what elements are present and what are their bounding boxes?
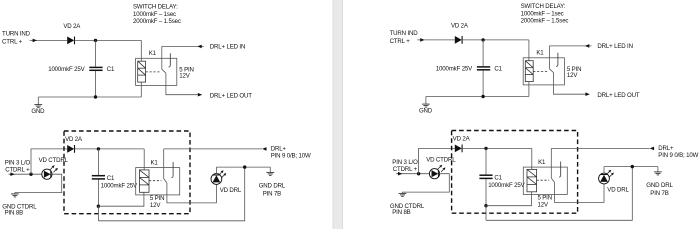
svg-text:K1: K1	[151, 160, 159, 167]
junction node D	[484, 204, 487, 207]
wire LED VD CTDRL to ground	[15, 174, 62, 194]
svg-text:12V: 12V	[179, 73, 190, 80]
ground GND (top)	[422, 103, 430, 105]
wire node A to capacitor C1	[95, 40, 97, 66]
svg-text:2000mkF – 1.5sec: 2000mkF – 1.5sec	[521, 17, 569, 24]
wire to GND DRL symbol	[269, 167, 271, 172]
LED VD CTDRL	[429, 169, 439, 179]
capacitor C1 (top)	[89, 66, 102, 68]
relay NO contact stub (bottom)	[559, 162, 561, 178]
wire node D to return rail	[97, 206, 99, 221]
svg-text:C1: C1	[107, 66, 115, 73]
page 2 schematic	[390, 3, 699, 220]
svg-text:CTDRL +: CTDRL +	[5, 167, 30, 174]
page 1 schematic	[2, 4, 311, 221]
svg-text:12V: 12V	[538, 201, 549, 208]
relay NO contact stub (top)	[556, 53, 558, 67]
relay lever (bottom)	[551, 178, 554, 182]
wire input to diode VD 2A	[417, 39, 454, 41]
wire capacitor to ground rail	[482, 71, 484, 97]
svg-text:PIN 9 0/B; 10W: PIN 9 0/B; 10W	[658, 152, 698, 159]
diode VD 2A (bottom)	[67, 145, 74, 153]
wire DRL+ LED IN	[162, 45, 204, 47]
relay NC contact (top)	[161, 46, 163, 69]
junction node E	[631, 165, 634, 168]
capacitor C1 (bottom)	[479, 174, 492, 176]
svg-text:DRL+ LED IN: DRL+ LED IN	[210, 44, 245, 51]
junction node D	[97, 205, 100, 208]
wire DRL+ output	[164, 148, 262, 150]
svg-text:GND: GND	[31, 108, 45, 115]
svg-text:VD 2A: VD 2A	[451, 22, 469, 29]
wire capacitor to ground rail	[95, 71, 97, 97]
relay coil (top)	[525, 61, 533, 82]
svg-text:12V: 12V	[567, 72, 578, 79]
relay lever (top)	[549, 69, 553, 73]
wire LED VD DRL to ground node	[603, 167, 605, 174]
relay NO contact stub (bottom)	[171, 162, 173, 178]
wire node C to capacitor C1 (bottom)	[485, 148, 487, 174]
junction node A	[94, 39, 97, 42]
svg-text:VD DRL: VD DRL	[607, 187, 629, 194]
svg-text:PIN 9 0/B; 10W: PIN 9 0/B; 10W	[271, 153, 311, 160]
actuator dashed link (bottom)	[537, 179, 550, 181]
diode VD 2A (top)	[67, 37, 74, 45]
svg-text:DRL+ LED OUT: DRL+ LED OUT	[210, 92, 252, 99]
svg-text:PIN 3 L/O: PIN 3 L/O	[5, 160, 31, 167]
ground GND CTDRL	[11, 193, 19, 195]
junction on ground rail	[94, 95, 97, 98]
wire diode to relay coil	[462, 39, 529, 41]
svg-text:CTDRL +: CTDRL +	[393, 166, 418, 173]
junction node E	[243, 165, 246, 168]
wire down to relay coil top pin	[140, 40, 142, 61]
wire capacitor to node D	[97, 180, 99, 207]
svg-text:C1: C1	[494, 175, 502, 182]
relay lever (top)	[162, 69, 166, 73]
wire node D to return rail	[485, 206, 487, 221]
svg-text:VD DRL: VD DRL	[220, 187, 242, 194]
svg-text:DRL+: DRL+	[658, 145, 674, 152]
wire relay common to DRL+ LED OUT	[554, 73, 586, 95]
svg-text:GND: GND	[419, 107, 433, 114]
wire to GND symbol	[425, 97, 427, 105]
LED VD DRL	[599, 173, 610, 184]
ground GND CTDRL	[399, 192, 407, 194]
wire to GND symbol	[37, 97, 39, 105]
actuator dashed link (top)	[533, 70, 548, 72]
branch wire node B to diode VD 2A	[31, 149, 67, 174]
svg-text:K1: K1	[538, 159, 546, 166]
svg-text:PIN 8B: PIN 8B	[5, 209, 23, 216]
LED VD CTDRL	[42, 169, 52, 179]
branch wire node B to diode VD 2A	[419, 148, 455, 173]
wire to GND DRL symbol	[657, 167, 659, 172]
ground rail wire (top)	[426, 96, 529, 98]
svg-text:SWITCH DELAY:: SWITCH DELAY:	[521, 3, 566, 10]
svg-text:VD 2A: VD 2A	[63, 23, 81, 30]
svg-text:GND DRL: GND DRL	[259, 182, 286, 189]
svg-text:PIN 3 L/O: PIN 3 L/O	[392, 159, 418, 166]
svg-text:DRL+ LED OUT: DRL+ LED OUT	[597, 92, 639, 99]
wire DRL+ LED IN	[549, 45, 591, 47]
diode VD 2A (bottom)	[455, 145, 462, 153]
relay coil (bottom)	[139, 170, 149, 192]
svg-text:SWITCH DELAY:: SWITCH DELAY:	[133, 4, 178, 11]
wire relay common to LED VD DRL	[167, 183, 217, 203]
wire diode to relay coil (bottom)	[75, 148, 145, 150]
junction node B	[417, 172, 420, 175]
svg-text:TURN IND: TURN IND	[390, 30, 419, 37]
capacitor C1 (top)	[477, 66, 490, 68]
relay coil (top)	[138, 61, 146, 82]
ground GND DRL	[654, 171, 662, 173]
actuator dashed link (top)	[146, 71, 161, 73]
diode VD 2A (top)	[455, 36, 462, 44]
wire relay common to LED VD DRL	[555, 182, 605, 202]
ground rail wire (top)	[38, 96, 141, 98]
svg-text:CTRL +: CTRL +	[2, 39, 23, 46]
junction on ground rail	[481, 95, 484, 98]
relay NC contact (bottom)	[163, 149, 165, 179]
svg-text:K1: K1	[149, 50, 157, 57]
svg-text:C1: C1	[107, 175, 115, 182]
wire coil bottom pin to ground rail	[528, 82, 530, 97]
junction node B	[29, 173, 32, 176]
actuator dashed link (bottom)	[149, 180, 162, 182]
junction node C	[97, 147, 100, 150]
svg-text:VD 2A: VD 2A	[453, 136, 471, 143]
input wire to LED VD CTDRL	[9, 173, 42, 175]
relay NO contact stub (top)	[169, 53, 171, 67]
page separator band	[333, 0, 343, 229]
svg-text:TURN IND: TURN IND	[2, 31, 31, 38]
svg-text:1000mkF 25V: 1000mkF 25V	[48, 66, 85, 73]
wire coil bottom pin to ground rail	[140, 82, 142, 97]
wire LED VD CTDRL to ground	[403, 174, 450, 194]
svg-text:C1: C1	[494, 66, 502, 73]
svg-text:DRL+: DRL+	[271, 145, 287, 152]
return rail wire	[486, 167, 632, 221]
ground GND (top)	[34, 104, 42, 106]
LED VD DRL	[211, 174, 222, 185]
svg-text:12V: 12V	[150, 202, 161, 209]
ground GND DRL	[266, 171, 274, 173]
wire down to relay coil top pin	[528, 40, 530, 61]
svg-text:PIN 8B: PIN 8B	[392, 209, 410, 216]
wire LED VD DRL to ground node	[215, 167, 217, 174]
relay K1 box (bottom)	[136, 168, 180, 195]
input wire to LED VD CTDRL	[396, 173, 429, 175]
svg-text:PIN 7B: PIN 7B	[650, 190, 668, 197]
svg-text:VD 2A: VD 2A	[65, 136, 83, 143]
wire diode to relay coil	[75, 39, 142, 41]
relay K1 box (top)	[523, 58, 564, 85]
wire node D to relay coil bottom pin	[98, 192, 143, 206]
dashed module box	[64, 131, 190, 214]
junction node C	[484, 147, 487, 150]
relay coil (bottom)	[527, 169, 537, 191]
svg-text:CTRL +: CTRL +	[390, 38, 411, 45]
relay K1 box (top)	[136, 58, 177, 85]
svg-text:1000mkF 25V: 1000mkF 25V	[488, 182, 525, 189]
wire diode to relay coil (bottom)	[462, 147, 532, 149]
wire node C to capacitor C1 (bottom)	[97, 149, 99, 175]
wire node A to capacitor C1	[482, 40, 484, 66]
return rail wire	[98, 167, 244, 221]
svg-text:K1: K1	[536, 50, 544, 57]
svg-text:1000mkF 25V: 1000mkF 25V	[436, 66, 473, 73]
relay NC contact (top)	[548, 46, 550, 69]
wire capacitor to node D	[485, 179, 487, 206]
capacitor C1 (bottom)	[92, 175, 105, 177]
wire input to diode VD 2A	[30, 39, 67, 41]
junction node A	[481, 38, 484, 41]
svg-text:1000mkF 25V: 1000mkF 25V	[101, 182, 138, 189]
relay K1 box (bottom)	[523, 167, 567, 194]
relay lever (bottom)	[164, 179, 167, 183]
wire relay common to DRL+ LED OUT	[166, 73, 198, 95]
svg-text:PIN 7B: PIN 7B	[263, 190, 281, 197]
dashed module box	[452, 131, 578, 214]
wire node D to relay coil bottom pin	[486, 192, 532, 206]
relay NC contact (bottom)	[550, 148, 552, 178]
svg-text:GND DRL: GND DRL	[646, 182, 673, 189]
wire DRL+ output	[551, 147, 649, 149]
svg-text:DRL+ LED IN: DRL+ LED IN	[597, 43, 632, 50]
svg-text:2000mkF – 1.5sec: 2000mkF – 1.5sec	[133, 18, 181, 25]
